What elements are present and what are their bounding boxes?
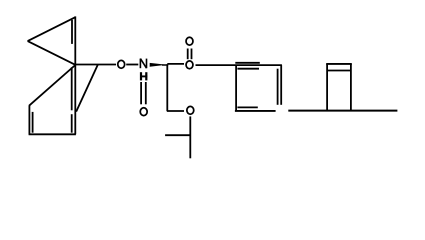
atom label O2 ester <box>186 61 193 69</box>
bond: N=O double bond line a <box>140 82 142 104</box>
atom label O4 (N=O oxygen) <box>140 108 147 116</box>
bond: C2 vertical down <box>166 64 168 111</box>
bond: wedge thin continuation N to C2 <box>162 64 168 66</box>
bond: C2 to carbonyl carbon <box>167 63 184 65</box>
atom label N <box>140 59 146 69</box>
bond: cyclopropene double-bond inner line <box>71 20 73 44</box>
bond: O1 to N <box>126 64 138 66</box>
bond: right ring top inner double line <box>327 70 351 72</box>
bond: ring right double-bond inner line (lower part) <box>71 114 73 133</box>
bond: right ring right vertical <box>350 64 352 111</box>
bond: main vertical (cyclopropene right edge + ring right edge) <box>74 16 76 134</box>
bond: phenyl ring top inner double line <box>237 68 259 70</box>
bond: spiro vertex to O1 <box>76 64 116 66</box>
atom label O3 ether <box>187 106 194 114</box>
bond: ring left double-bond inner line <box>32 112 34 133</box>
bond: cyclopropene left edge lower (apex to spiro vertex) <box>28 41 76 65</box>
bond: stereo wedge N to C2 <box>150 63 167 67</box>
bond: N=O double bond line b <box>145 82 147 104</box>
bond: ester O2 to phenyl ring (continues as ring top edge) <box>196 64 282 66</box>
atom label H (on N) <box>140 72 147 80</box>
bond: cyclopropene left edge upper (apex to top vertex) <box>28 17 76 41</box>
bond: phenyl ring right outer vertical <box>280 65 282 105</box>
bond: right baseline chain <box>288 110 397 112</box>
bond: ester C=O double line a <box>187 49 189 60</box>
bond: ring right double-bond inner line (upper part, gap at crossing) <box>71 67 73 110</box>
bond: right ring top edge <box>326 63 352 65</box>
bond: phenyl ring left vertical <box>235 65 237 111</box>
bond: ester C=O double line b <box>191 49 193 60</box>
bond: ring diagonal (spiro vertex to lower-left vertex) <box>29 65 75 106</box>
bond: phenyl ring bottom edge <box>235 110 276 112</box>
bond: O3 down to isopropyl CH <box>189 116 191 158</box>
bond: isopropyl methyl branch <box>165 134 190 136</box>
bond: long bridge diagonal <box>76 65 98 112</box>
bond: phenyl ring right inner double line <box>277 69 279 105</box>
atom label O1 <box>118 60 125 68</box>
bond: phenyl ring top upper line <box>235 62 259 64</box>
bond: ring bottom edge <box>29 133 76 135</box>
bond: C2-CH2 horizontal to O3 <box>167 110 184 112</box>
bond: right ring left vertical <box>326 64 328 111</box>
atom label O carbonyl top <box>186 37 193 45</box>
bond: phenyl ring bottom inner double line <box>237 106 257 108</box>
bond: ring left vertical <box>28 105 30 134</box>
